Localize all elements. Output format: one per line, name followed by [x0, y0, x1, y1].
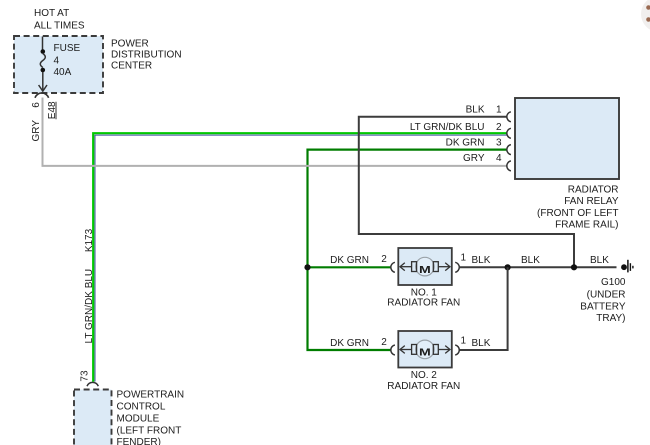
svg-text:G100: G100 [601, 277, 626, 288]
fan1 left connector arc [391, 262, 395, 272]
wire DK GRN from relay pin3 to fans [308, 150, 508, 350]
wire LT GRN/DK BLU (blue tracer) [95, 135, 508, 381]
relay connector arcs pins 1-4 [507, 112, 511, 171]
svg-text:DK GRN: DK GRN [330, 338, 369, 349]
svg-text:BLK: BLK [472, 338, 491, 349]
svg-text:FAN RELAY: FAN RELAY [564, 196, 619, 207]
svg-text:FUSE: FUSE [54, 43, 81, 54]
svg-text:GRY: GRY [31, 120, 42, 142]
fan1 right connector arc [455, 262, 459, 272]
label POWERTRAIN CONTROL MODULE (LEFT FRONT FENDER) [117, 390, 185, 445]
svg-text:CONTROL: CONTROL [117, 402, 166, 413]
svg-text:6: 6 [31, 102, 42, 108]
relay pin wire labels [410, 104, 485, 164]
no.1 radiator fan box [398, 248, 452, 285]
svg-text:BATTERY: BATTERY [580, 301, 626, 312]
svg-text:HOT AT: HOT AT [34, 8, 69, 19]
svg-text:GRY: GRY [463, 153, 485, 164]
motor arrows [400, 263, 450, 271]
svg-text:73: 73 [80, 370, 91, 382]
junction dot fan2 riser [505, 264, 511, 270]
no.2 radiator fan box [398, 331, 452, 368]
wire BLK fan2 riser [459, 267, 507, 350]
svg-text:FRAME RAIL): FRAME RAIL) [555, 220, 618, 231]
svg-text:LT GRN/DK BLU K173: LT GRN/DK BLU K173 [84, 228, 95, 343]
svg-text:4: 4 [496, 153, 502, 164]
svg-text:2: 2 [381, 337, 387, 348]
svg-text:RADIATOR: RADIATOR [568, 185, 619, 196]
svg-text:2: 2 [496, 122, 502, 133]
wire GRY from fuse to relay pin4 [43, 98, 508, 166]
svg-text:DK GRN: DK GRN [446, 138, 485, 149]
svg-text:TRAY): TRAY) [596, 313, 625, 324]
svg-text:(FRONT OF LEFT: (FRONT OF LEFT [537, 208, 618, 219]
label POWER DISTRIBUTION CENTER [111, 38, 182, 71]
svg-text:(UNDER: (UNDER [587, 290, 626, 301]
label NO. 2 RADIATOR FAN [387, 370, 460, 392]
label NO. 1 RADIATOR FAN [387, 287, 460, 308]
connector name E48 [47, 101, 58, 119]
wire DK GRN branch to fan1 [308, 266, 392, 268]
svg-text:CENTER: CENTER [111, 61, 152, 72]
motor circle M [416, 257, 435, 276]
svg-text:BLK: BLK [521, 255, 540, 266]
radiator fan relay box [515, 98, 619, 179]
svg-text:POWERTRAIN: POWERTRAIN [117, 390, 185, 401]
svg-text:NO. 2: NO. 2 [411, 370, 438, 381]
svg-text:FENDER): FENDER) [117, 437, 161, 445]
svg-text:RADIATOR FAN: RADIATOR FAN [387, 381, 460, 392]
svg-text:LT GRN/DK BLU: LT GRN/DK BLU [410, 122, 485, 133]
junction dot on DK GRN [304, 264, 310, 270]
label FUSE 4 40A [54, 43, 81, 78]
motor brushes [412, 345, 417, 355]
ground G100 symbol [621, 260, 633, 273]
motor circle M [416, 340, 435, 359]
motor arrows [400, 346, 450, 354]
junction dot relay drop [571, 264, 577, 270]
svg-text:4: 4 [54, 55, 60, 66]
svg-text:DISTRIBUTION: DISTRIBUTION [111, 49, 182, 60]
wire BLK fan1 to ground [459, 266, 616, 268]
powertrain control module box (dashed) [74, 390, 112, 445]
label HOT AT ALL TIMES [34, 8, 85, 31]
wire LT GRN/DK BLU (green) [93, 133, 507, 382]
label RADIATOR FAN RELAY (FRONT OF LEFT FRAME RAIL) [537, 185, 619, 231]
power distribution center box (dashed) [14, 36, 103, 93]
svg-text:1: 1 [496, 104, 502, 115]
svg-text:M: M [419, 265, 431, 276]
connector E48 (arc under fuse) [35, 93, 49, 98]
label G100 (UNDER BATTERY TRAY) [580, 277, 626, 324]
svg-text:ALL TIMES: ALL TIMES [34, 20, 85, 31]
svg-text:MODULE: MODULE [117, 414, 160, 425]
wire BLK from relay pin1 to ground junction [359, 117, 574, 266]
svg-text:(LEFT FRONT: (LEFT FRONT [117, 425, 182, 436]
fan2 right connector arc [455, 345, 459, 355]
fuse F4 40A [39, 37, 47, 92]
svg-text:DK GRN: DK GRN [330, 255, 369, 266]
svg-text:BLK: BLK [472, 255, 491, 266]
svg-text:RADIATOR FAN: RADIATOR FAN [387, 298, 460, 309]
svg-text:3: 3 [496, 138, 502, 149]
relay pin numbers 1-4 [496, 104, 502, 164]
scroll button (top-right partial circle) [641, 0, 650, 32]
svg-text:M: M [419, 348, 431, 359]
svg-text:2: 2 [381, 254, 387, 265]
pcm connector arc [87, 382, 98, 386]
svg-text:BLK: BLK [466, 104, 485, 115]
svg-text:POWER: POWER [111, 38, 149, 49]
svg-text:1: 1 [461, 253, 467, 264]
svg-text:40A: 40A [54, 67, 72, 78]
motor brushes [412, 262, 417, 272]
svg-text:1: 1 [461, 336, 467, 347]
fan2 left connector arc [391, 345, 395, 355]
svg-text:BLK: BLK [590, 255, 609, 266]
